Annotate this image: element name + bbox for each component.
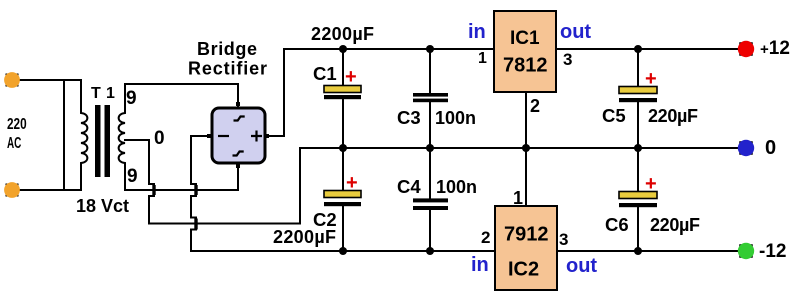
svg-text:3: 3 [559,230,568,249]
svg-text:9: 9 [127,166,138,187]
svg-text:Rectifier: Rectifier [188,59,267,79]
svg-text:-12: -12 [759,241,786,262]
svg-text:2: 2 [530,96,540,116]
svg-text:C1: C1 [313,63,337,84]
svg-text:IC2: IC2 [508,259,539,281]
svg-text:T: T [91,85,101,102]
svg-text:1: 1 [478,50,487,67]
svg-text:C4: C4 [397,176,421,197]
svg-text:C5: C5 [602,105,626,126]
svg-text:+: + [645,68,657,90]
svg-text:220µF: 220µF [650,215,700,235]
svg-text:2: 2 [481,228,490,247]
svg-text:100n: 100n [435,108,476,128]
svg-text:0: 0 [154,128,165,149]
svg-text:in: in [468,21,486,43]
svg-text:IC1: IC1 [510,28,540,49]
svg-text:18 Vct: 18 Vct [76,196,129,216]
svg-text:2200µF: 2200µF [311,24,374,44]
svg-text:Bridge: Bridge [197,39,257,59]
svg-text:C3: C3 [397,107,421,128]
svg-text:7812: 7812 [503,55,548,77]
svg-text:0: 0 [765,137,776,159]
svg-text:3: 3 [563,50,572,69]
svg-text:C6: C6 [605,214,629,235]
svg-text:+12: +12 [760,38,790,59]
svg-text:in: in [471,254,489,276]
svg-text:100n: 100n [436,177,477,197]
svg-text:+: + [345,66,357,88]
svg-text:out: out [560,21,591,43]
svg-text:9: 9 [126,88,137,109]
svg-text:220: 220 [7,115,27,132]
svg-text:2200µF: 2200µF [273,227,336,247]
svg-text:220µF: 220µF [648,106,698,126]
svg-text:+: + [645,173,657,195]
svg-text:+: + [346,172,358,194]
svg-text:AC: AC [7,134,22,152]
svg-text:1: 1 [106,85,115,102]
svg-text:7912: 7912 [504,224,549,246]
svg-text:out: out [566,255,597,277]
svg-text:1: 1 [513,188,523,208]
